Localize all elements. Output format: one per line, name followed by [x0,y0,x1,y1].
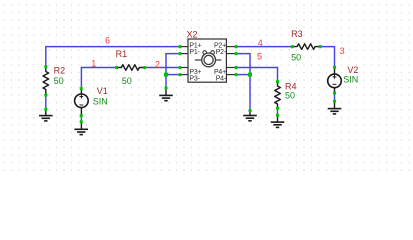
svg-text:P2-: P2- [216,49,227,56]
svg-text:50: 50 [285,90,295,100]
svg-text:V1: V1 [97,86,108,96]
svg-text:50: 50 [291,53,301,63]
svg-text:SIN: SIN [93,96,108,106]
svg-text:50: 50 [54,76,64,86]
svg-text:R3: R3 [291,29,303,39]
svg-text:X2: X2 [187,30,198,40]
svg-text:4: 4 [258,38,263,48]
svg-text:P4-: P4- [216,76,227,83]
svg-text:2: 2 [155,59,160,69]
svg-text:1: 1 [91,58,96,68]
svg-text:R1: R1 [116,49,128,59]
svg-text:5: 5 [257,52,262,62]
svg-text:V2: V2 [347,65,358,75]
svg-text:50: 50 [122,76,132,86]
svg-text:P3-: P3- [189,76,200,83]
svg-text:3: 3 [340,46,345,56]
svg-text:P1-: P1- [189,49,200,56]
svg-text:SIN: SIN [343,74,358,84]
svg-text:6: 6 [105,36,110,46]
svg-text:R2: R2 [54,65,66,75]
